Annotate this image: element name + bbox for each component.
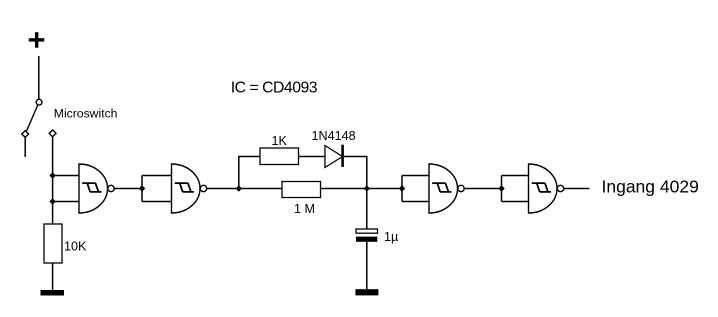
wire to U1B lower input	[142, 201, 172, 203]
wire D1 to right corner and down to node C	[344, 157, 367, 189]
svg-text:1 M: 1 M	[294, 202, 315, 216]
wire R1 to ground	[52, 263, 54, 290]
svg-text:1K: 1K	[272, 134, 288, 148]
microswitch left contact	[22, 131, 29, 138]
node B junction dot	[236, 185, 242, 191]
node junction dot gate U1A lower input	[49, 198, 55, 204]
node junction dot gate U1A upper input	[49, 172, 55, 178]
wire U1A output to U1B input node	[114, 188, 142, 190]
wire U1D output	[564, 188, 590, 190]
svg-text:10K: 10K	[64, 239, 87, 253]
microswitch pole circle	[36, 99, 42, 105]
diode D1 cathode bar	[341, 145, 344, 167]
nand gate U1B	[172, 164, 207, 213]
wire U1B output to node B	[207, 188, 239, 190]
U1C input tie bar	[401, 176, 403, 202]
U1B input tie bar	[141, 176, 143, 202]
wire to U1C upper input	[402, 175, 429, 177]
svg-text:IC = CD4093: IC = CD4093	[231, 79, 318, 96]
node junction dot U1D input	[498, 185, 504, 191]
U1D input tie bar	[501, 176, 503, 202]
wire to U1B upper input	[142, 175, 172, 177]
microswitch blade	[27, 105, 38, 131]
svg-text:1µ: 1µ	[384, 230, 398, 244]
wire C1 to ground	[366, 242, 368, 289]
nand gate U1C	[429, 164, 464, 213]
wire from + down to switch pole	[38, 56, 40, 99]
wire node C down to capacitor C1	[366, 189, 368, 230]
svg-text:Microswitch: Microswitch	[54, 107, 118, 121]
wire to U1A upper input	[53, 175, 79, 177]
nand gate U1D	[529, 164, 564, 213]
wire stub below left contact	[24, 138, 26, 157]
capacitor C1 top plate	[356, 229, 378, 233]
wire R3 to node C	[321, 188, 367, 190]
resistor R2 1K	[260, 148, 299, 165]
wire switch down to resistor R1	[52, 137, 54, 224]
microswitch right contact	[49, 130, 56, 137]
wire node C to U1C input node	[367, 188, 402, 190]
wire to U1A lower input	[53, 201, 79, 203]
resistor R1 10K	[44, 224, 62, 263]
ground left	[41, 290, 65, 296]
wire R2 to diode D1	[299, 156, 326, 158]
plus supply symbol	[29, 32, 45, 48]
wire to U1D lower input	[502, 201, 529, 203]
svg-text:1N4148: 1N4148	[312, 129, 356, 143]
svg-text:Ingang 4029: Ingang 4029	[602, 177, 699, 197]
node junction dot U1B input	[139, 185, 145, 191]
wire to U1D upper input	[502, 175, 529, 177]
ground under C1	[355, 289, 378, 295]
wire node B up to top branch and to R2	[239, 157, 260, 189]
node C junction dot	[364, 185, 370, 191]
resistor R3 1M	[282, 182, 321, 198]
nand gate U1A	[79, 164, 114, 213]
wire U1C output to U1D input node	[464, 188, 501, 190]
capacitor C1 bottom plate	[356, 237, 377, 242]
diode D1 triangle	[325, 146, 343, 168]
wire to U1C lower input	[402, 201, 429, 203]
node junction dot U1C input	[399, 185, 405, 191]
wire node B to R3	[239, 188, 282, 190]
